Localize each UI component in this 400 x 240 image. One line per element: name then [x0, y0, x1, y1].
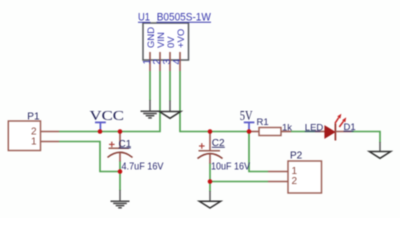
junction C2 top: [208, 129, 213, 134]
LED arrow 1: [335, 118, 339, 124]
junction C2 bottom: [208, 179, 213, 184]
wire LED to ground: [352, 132, 381, 143]
svg-text:2: 2: [292, 176, 298, 187]
P1 pin 1 stub: [41, 141, 60, 143]
ground earth at C1: [119, 190, 121, 201]
LED D1: [315, 131, 325, 133]
svg-text:10uF 16V: 10uF 16V: [211, 161, 250, 172]
svg-text:1k: 1k: [282, 122, 292, 133]
svg-text:1: 1: [31, 136, 37, 147]
dc-dc module U1: [143, 23, 189, 60]
wire R1 to LED: [291, 131, 315, 133]
P2 pin 1 stub: [268, 171, 288, 173]
LED arrow 2: [339, 121, 343, 127]
svg-text:4.7uF 16V: 4.7uF 16V: [122, 161, 164, 172]
wire C1 bottom to ground: [119, 161, 121, 191]
U1 pin 2 stub: [159, 52, 161, 71]
wire 5V to P2 pin1: [249, 132, 268, 172]
wire P1.1 to C1 bottom: [59, 142, 120, 172]
ground chevron at U1 pin3: [169, 101, 171, 112]
wire C2 bottom to ground: [209, 163, 211, 192]
wire C2 bottom to P2 pin2: [210, 181, 268, 183]
junction C1 bottom: [118, 169, 123, 174]
wire U1 pin3 0V down: [169, 71, 171, 101]
junction VCC rail: [98, 129, 103, 134]
svg-text:VCC: VCC: [90, 108, 125, 123]
svg-text:P2: P2: [290, 150, 303, 161]
svg-text:P1: P1: [27, 112, 40, 123]
wire U1 pin4 +VO to 5V rail: [180, 71, 249, 132]
capacitor C2: [209, 132, 211, 151]
U1 pin 3 stub: [169, 52, 171, 71]
connector P2: [288, 161, 322, 193]
P1 pin 2 stub: [41, 131, 60, 133]
junction C1 top: [118, 129, 123, 134]
U1 pin 4 stub: [179, 52, 181, 71]
resistor R1: [249, 131, 259, 133]
U1 pin 1 stub: [149, 52, 151, 71]
svg-text:R1: R1: [257, 117, 269, 128]
capacitor C1: [119, 132, 121, 149]
wire U1 pin1 GND down: [149, 71, 151, 101]
ground chevron at C2: [209, 191, 211, 201]
wire P1.2 to U1 VIN rail: [59, 71, 160, 132]
ground earth at U1 pin1: [149, 100, 151, 111]
connector P1: [8, 121, 40, 151]
svg-text:4: 4: [172, 59, 183, 65]
svg-text:5V: 5V: [240, 108, 253, 123]
P2 pin 2 stub: [268, 181, 288, 183]
junction 5V rail: [247, 129, 252, 134]
svg-text:+VO: +VO: [176, 29, 187, 48]
ground chevron at LED output: [379, 142, 381, 152]
